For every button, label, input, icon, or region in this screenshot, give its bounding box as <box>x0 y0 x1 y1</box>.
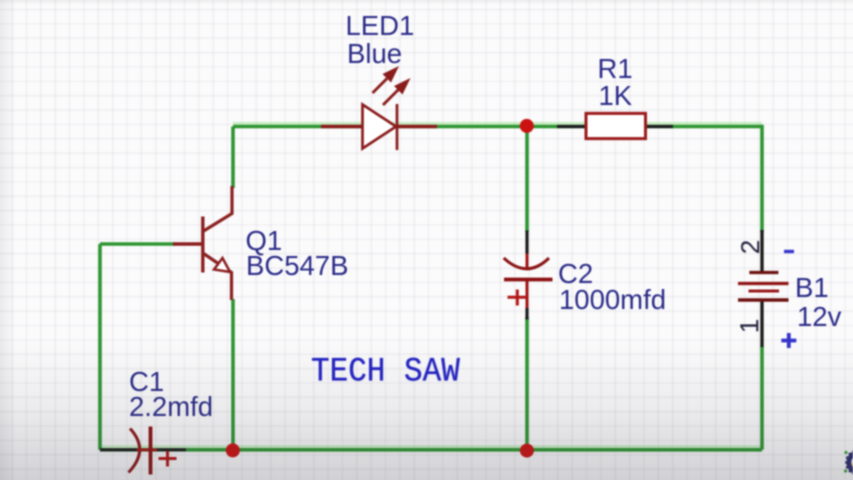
title TECH SAW <box>311 355 460 389</box>
wire right vertical green net <box>760 125 764 232</box>
wire black pin segment C1 right <box>156 448 186 451</box>
capacitor C2 straight plate <box>504 278 553 282</box>
battery pin number 1 <box>736 319 762 333</box>
LED light arrow 1 <box>373 69 397 93</box>
battery B1 plate 4 long <box>738 298 789 301</box>
wire C2 branch vertical green <box>525 127 529 233</box>
wire black pin segment C2 top <box>525 231 528 255</box>
junction node top at C2/R1 <box>520 119 534 133</box>
junction node bottom at Q1 emitter <box>226 443 240 457</box>
Q1 emitter arrowhead <box>214 258 230 272</box>
label R1 <box>598 55 633 83</box>
label LED1 <box>346 12 415 40</box>
resistor R1 box <box>586 113 646 138</box>
label B1 <box>795 274 829 302</box>
battery B1 plate 1 short <box>749 271 778 274</box>
wire halo above top net <box>233 122 762 125</box>
wire halo above bottom net <box>100 445 762 448</box>
label Q1 <box>246 227 283 255</box>
capacitor C1 red stub right of plate <box>152 448 157 451</box>
wire top horizontal green net <box>233 125 762 129</box>
label 12v <box>797 303 841 331</box>
wire black pin segment C2 bottom <box>525 308 528 320</box>
label Blue <box>347 40 402 68</box>
battery B1 plate 3 short <box>749 290 780 293</box>
wire dark red Q1 base segment <box>173 242 202 245</box>
wire black pin segment left of R1 <box>557 125 586 128</box>
Q1 base bar <box>201 217 204 273</box>
battery pin number 2 <box>737 240 763 254</box>
battery B1 minus sign <box>784 250 794 253</box>
capacitor C2 red pin through arc <box>526 254 529 269</box>
label BC547B <box>246 252 348 280</box>
label C2 <box>558 260 593 288</box>
label 1000mfd <box>559 286 666 314</box>
capacitor C2 curved plate <box>504 258 549 269</box>
capacitor C2 plus sign <box>508 290 528 306</box>
Q1 collector pin <box>203 186 232 232</box>
wire black pin segment right of R1 <box>645 125 673 128</box>
wire Q1 emitter vertical green <box>231 299 235 450</box>
wire left vertical green net <box>98 244 102 450</box>
capacitor C1 plus sign <box>159 451 177 467</box>
label 2.2mfd <box>129 393 213 421</box>
wire black pin segment battery bottom <box>760 301 763 348</box>
transistor Q1 symbol <box>203 186 232 300</box>
label 1K <box>599 82 633 110</box>
label C1 <box>129 368 164 396</box>
logo gear bottom right <box>844 449 853 476</box>
wire black pin segment battery top <box>760 230 763 272</box>
capacitor C1 curved plate <box>129 429 140 473</box>
wire dark red LED anode segment <box>321 125 363 128</box>
wire bottom horizontal green net <box>100 448 762 452</box>
Q1 emitter diagonal <box>203 253 232 300</box>
wire black pin segment C1 left <box>100 448 137 451</box>
junction node bottom at C2 <box>520 444 534 458</box>
battery B1 plate 2 long <box>738 282 789 285</box>
wire dark red LED cathode segment <box>396 125 437 128</box>
wire Q1 base horizontal green <box>100 242 175 246</box>
battery B1 plus sign <box>781 333 796 348</box>
LED light arrow 2 <box>383 81 408 105</box>
capacitor C1 red pin through arc <box>137 448 149 451</box>
capacitor C1 straight plate <box>149 427 153 475</box>
LED D1 symbol <box>363 104 398 150</box>
wire Q1 collector vertical green <box>231 127 235 189</box>
capacitor C2 red stub below plate <box>526 281 529 308</box>
